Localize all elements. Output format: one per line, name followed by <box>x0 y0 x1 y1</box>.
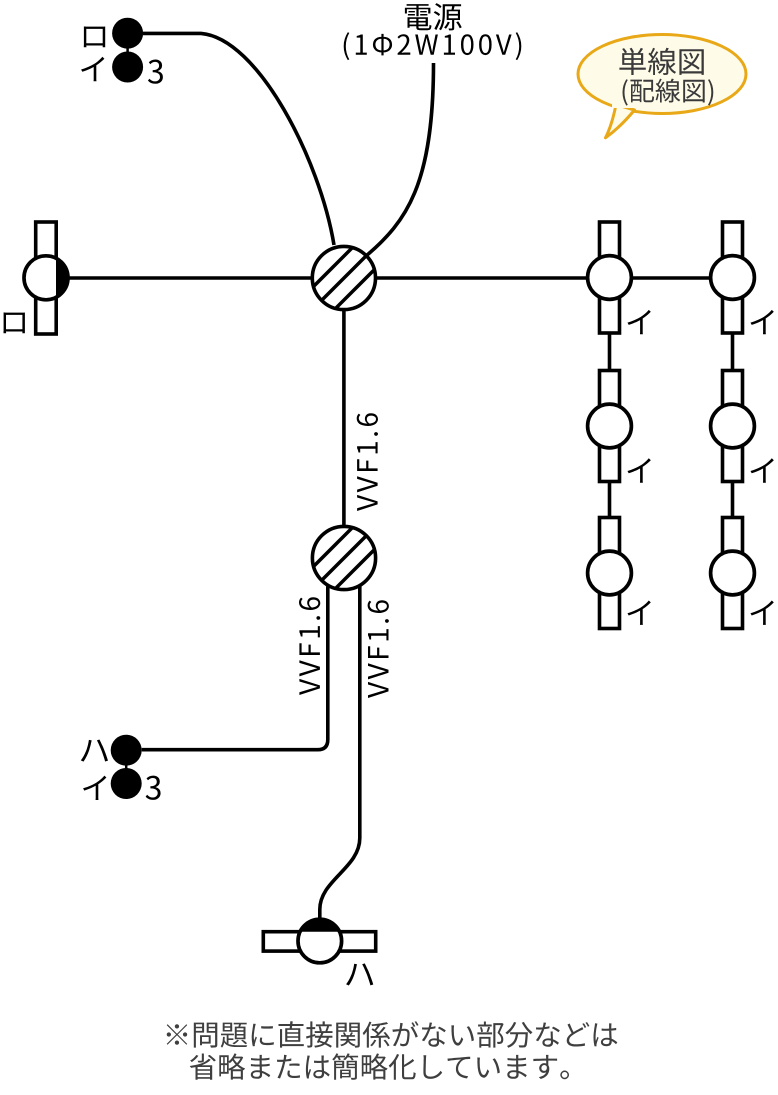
wire: lamp イ 1-2 to lamp イ 1-3 <box>608 482 612 518</box>
wire: J1 to lamp ロ <box>68 276 312 280</box>
label イ (lamp 2-2) <box>751 458 774 482</box>
wire: link between switch ロ and switch イ <box>126 33 129 67</box>
lamp イ 2-3 (fluorescent light) <box>723 518 743 629</box>
switch S-ro (single-pole switch ロ) <box>112 18 143 49</box>
wire: J1 down to J2 (VVF1.6) <box>342 310 346 527</box>
wire: power feed to junction box J1 <box>366 63 433 256</box>
wire: lamp column 1 to lamp column 2 <box>631 276 710 280</box>
label イ (switch) <box>81 57 104 81</box>
switch S-i (3-way switch イ) <box>112 52 143 83</box>
wire: lamp イ 1-1 to lamp イ 1-2 <box>608 333 612 371</box>
switch S-ha (single-pole switch ハ) <box>111 735 142 766</box>
junction box J1 (hatched outlet box) <box>282 222 422 318</box>
label イ (lamp 1-2) <box>628 458 651 482</box>
lamp イ 2-1 (fluorescent light) <box>723 222 743 333</box>
label イ (lamp 2-3) <box>751 601 774 625</box>
value label VVF1.6 (J1-J2) <box>357 413 378 511</box>
power source value label (1Φ2W100V) <box>344 32 522 60</box>
wire: J2 down to lamp ハ (VVF1.6) <box>320 586 360 919</box>
power source label 電源 <box>405 3 462 30</box>
lamp イ 2-2 (fluorescent light) <box>723 371 743 482</box>
label 3 (3-way) <box>148 60 163 84</box>
note text line 2 <box>190 1053 569 1079</box>
lamp イ 1-2 (fluorescent light) <box>600 371 620 482</box>
lamp イ 1-3 (fluorescent light) <box>600 518 620 629</box>
label イ (lamp 1-3) <box>628 601 651 625</box>
lamp ハ (ceiling light, half-filled symbol) <box>263 919 375 963</box>
wire: switches to junction box J1 <box>143 33 334 245</box>
label 3 (3-way bottom) <box>146 776 161 800</box>
label ロ (switch) <box>84 27 105 48</box>
switch S-i2 (3-way switch イ bottom) <box>111 768 142 799</box>
lamp イ 1-1 (fluorescent light) <box>600 222 620 333</box>
label イ (lamp 2-1) <box>751 310 774 334</box>
wire: J1 to lamp column 1 <box>376 276 588 280</box>
wire: link between switch ハ and switch イ (bottom) <box>125 750 128 783</box>
wire: lamp イ 2-2 to lamp イ 2-3 <box>731 482 735 518</box>
value label VVF1.6 (J2-switches) <box>299 597 320 695</box>
wire: lamp イ 2-1 to lamp イ 2-2 <box>731 333 735 371</box>
label ハ (switch) <box>81 740 108 762</box>
label ロ (lamp) <box>4 313 25 334</box>
lamp ロ (wall light, half-filled symbol) <box>24 222 68 334</box>
junction box J2 (hatched outlet box) <box>282 502 422 598</box>
callout bubble 単線図(配線図) <box>578 35 746 114</box>
wire: J2 to switches ハ/イ (VVF1.6) <box>142 586 328 750</box>
label イ (lamp 1-1) <box>628 310 651 334</box>
note text line 1 <box>167 1021 618 1047</box>
label ハ (lamp) <box>346 963 373 985</box>
label イ (switch bottom) <box>83 776 106 800</box>
value label VVF1.6 (J2-lamp) <box>368 600 389 698</box>
